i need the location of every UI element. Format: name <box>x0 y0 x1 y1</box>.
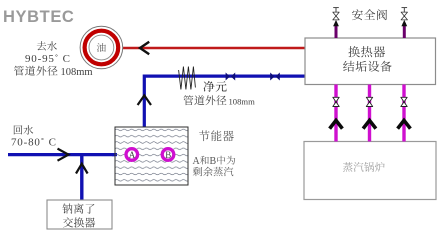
wire: blue return-water line into economizer <box>8 153 116 156</box>
wire: red hot-water supply line <box>119 47 305 50</box>
steam pipe W1 boiler to heat exchanger <box>330 85 343 142</box>
flow arrow up on economizer outlet pipe <box>138 95 151 105</box>
svg-text:A: A <box>193 156 201 167</box>
economizer box with water fill <box>115 127 188 185</box>
label 去水 <box>37 41 57 51</box>
heat exchanger box U1 <box>305 38 436 85</box>
label 管道外径 108mm (supply) <box>14 66 93 78</box>
flow arrow right on return line <box>58 149 69 161</box>
label A和B中为 <box>193 156 236 167</box>
safety valve pipe S2 <box>401 8 407 38</box>
sodium-ion exchanger box <box>47 200 112 229</box>
valve V1 on blue pipe <box>226 73 236 81</box>
svg-text:A: A <box>129 150 136 160</box>
svg-text:B: B <box>210 156 217 167</box>
label 回水 <box>14 125 33 135</box>
svg-text:70-80˚ C: 70-80˚ C <box>11 137 57 149</box>
svg-text:B: B <box>165 150 171 160</box>
pump A circle <box>126 149 138 161</box>
coil symbol on blue pipe <box>179 67 196 90</box>
safety valve pipe S1 <box>333 8 339 38</box>
wire: riser from sodium-ion exchanger, junction T <box>80 155 83 200</box>
svg-text:108mm: 108mm <box>61 67 93 78</box>
pump B circle <box>162 149 174 161</box>
flow arrow on red line (points left) <box>140 42 149 54</box>
oil pump P1 (circle with 油) <box>80 26 123 69</box>
svg-text:108mm: 108mm <box>229 96 256 106</box>
steam pipe W2 boiler to heat exchanger <box>363 85 376 142</box>
label 90-95 C <box>25 53 71 65</box>
svg-text:90-95˚ C: 90-95˚ C <box>25 53 71 65</box>
label 剩余蒸汽 <box>193 167 233 176</box>
node: economizer inlet <box>112 153 117 156</box>
label 净元 <box>203 81 226 92</box>
label 安全阀 <box>352 9 387 20</box>
label HYBTEC logo <box>3 8 74 26</box>
flow arrow up on riser <box>76 164 88 174</box>
steam pipe W3 boiler to heat exchanger <box>398 85 411 142</box>
svg-text:HYBTEC: HYBTEC <box>3 8 74 26</box>
valve V2 on blue pipe <box>270 73 280 81</box>
label 节能器 <box>199 130 234 141</box>
steam boiler box <box>304 142 436 200</box>
label 管道外径 108mm (treated) <box>183 95 255 106</box>
wire: blue pipe economizer outlet to heat exchanger <box>144 76 305 127</box>
label 70-80 C <box>11 137 57 149</box>
